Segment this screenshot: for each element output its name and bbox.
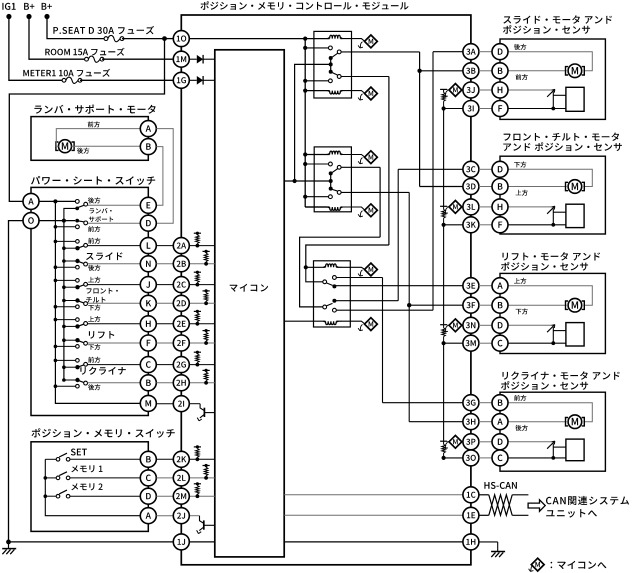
terminal module 2I [173, 396, 189, 412]
resistor pull 2D [203, 290, 210, 292]
wire 2H to MCU [189, 382, 215, 384]
unit recline motor and position sensor [500, 392, 605, 471]
relay K3 lower pivot [323, 305, 327, 309]
label recline unit line2 [501, 381, 588, 390]
terminal switch K [140, 295, 156, 311]
wire 2E to MCU [189, 323, 215, 325]
wire D to lumbar A [156, 129, 173, 224]
terminal memory B [140, 451, 156, 467]
resistor sensor pull 1 [440, 88, 447, 90]
label SET [71, 449, 87, 456]
fuse P.SEAT D 30A [104, 37, 108, 41]
wire 2A to MCU [189, 245, 215, 247]
wire sensor chain link [443, 109, 445, 207]
wire 3G to recline unit [479, 402, 492, 404]
wire 3N to lift unit [479, 324, 492, 326]
terminal module 2K [173, 451, 189, 467]
switch slide forward (L) [55, 240, 75, 242]
legend diamond M [530, 565, 533, 571]
label slide unit line1 [503, 15, 612, 23]
wire switch row to 2B [156, 263, 173, 265]
switch E pivot+arm [84, 202, 88, 206]
terminal module 3A [463, 44, 479, 60]
wire 3E to lift unit [479, 285, 492, 287]
diamond MCU sensor 1 [445, 91, 448, 97]
wire switch row to 2D [156, 302, 173, 304]
node B+ (1) [26, 14, 31, 19]
label 後方 B row [88, 384, 100, 390]
wire relay common link [295, 64, 331, 181]
label 下方 K row [88, 305, 100, 311]
wire K3 coil2 feed [284, 320, 325, 322]
twisted pair HS-CAN [489, 495, 512, 516]
wire net relay2-upper to K3 feed [379, 167, 381, 237]
unit lift motor and position sensor [500, 273, 605, 353]
wire net K3 to 3A [432, 52, 434, 311]
resistor pull 2B [203, 250, 210, 252]
switch lift down (F) [64, 339, 78, 341]
terminal module 2C [173, 277, 189, 293]
arrow to CAN units [528, 500, 545, 512]
box position memory switch [31, 442, 148, 532]
terminal module 3P [463, 434, 479, 450]
node P.SEAT junction [162, 36, 167, 41]
node ground junction [6, 540, 11, 545]
wire K3 coil1 feed [306, 245, 389, 267]
switch D pivot+arm [84, 221, 88, 225]
terminal switch A [23, 193, 39, 209]
switch lumbar rear contact [75, 200, 79, 204]
wire 1G diode to MCU [189, 79, 197, 81]
label tilt unit line1 [504, 133, 619, 141]
label lumbar support motor [34, 105, 155, 114]
resistor pull 2F [203, 330, 210, 332]
wire lumbar A [56, 129, 140, 147]
resistor pull 2C [194, 271, 201, 273]
label HS-CAN [484, 482, 517, 489]
terminal lumbar B [140, 139, 156, 155]
wire 1E stub [479, 514, 489, 516]
wire net relay2-lower to 3F/3H [408, 192, 410, 421]
terminal module 3D [463, 179, 479, 195]
label recline unit line1 [503, 371, 620, 379]
wire 3L to tilt unit [479, 206, 492, 208]
terminal switch C [140, 357, 156, 373]
wire 3H to recline unit [479, 421, 492, 423]
wire 3K to tilt unit [479, 224, 492, 226]
ground chassis left [8, 542, 10, 549]
node O bus tap [62, 219, 66, 223]
terminal module 2J [173, 508, 189, 524]
terminal lumbar A [140, 121, 156, 137]
terminal module 2H [173, 375, 189, 391]
terminal switch D [140, 215, 156, 231]
resistor pull 2H [203, 369, 210, 371]
terminal module 3C [463, 161, 479, 177]
unit front tilt motor and position sensor [500, 156, 605, 234]
wire 2D to MCU [189, 302, 215, 304]
diamond MCU sensor 4 [445, 442, 448, 448]
label 上方 J row [88, 277, 100, 283]
wire 1H to ground [479, 541, 498, 543]
label 後方 N row [88, 265, 100, 271]
switch memory 1 [45, 477, 56, 479]
switch recline rearward (B) [64, 379, 78, 381]
label 前方 D row [88, 226, 100, 232]
terminal module 2A [173, 238, 189, 254]
wire 3A to slide unit [479, 51, 492, 53]
terminal switch N [140, 256, 156, 272]
label 後方 E row [88, 197, 100, 203]
terminal switch H [140, 316, 156, 332]
relay K3 upper pivot [323, 280, 327, 284]
label CAN related system units line1 [546, 496, 629, 505]
wire MCU to 1C [284, 494, 463, 496]
node memory tap 1 [44, 476, 48, 480]
wire memory bus [45, 459, 140, 515]
wire 2G to MCU [189, 364, 215, 366]
ground chassis right [491, 551, 505, 553]
diode 1M [197, 55, 203, 64]
wire 2C to MCU [189, 284, 215, 286]
wire chain to terminal [444, 457, 463, 459]
switch lift up (H) [55, 319, 75, 321]
wire 3J to slide unit [479, 89, 492, 91]
switch memory 2 [45, 495, 56, 497]
wire 3D to tilt unit [479, 186, 492, 188]
terminal switch J [140, 277, 156, 293]
terminal module 2L [173, 470, 189, 486]
terminal module 1E [463, 507, 479, 523]
label サポート [89, 216, 113, 222]
wire chain to terminal [444, 108, 463, 110]
box power seat switch [31, 187, 148, 415]
label メモリ 1 [71, 465, 102, 472]
terminal module 2B [173, 256, 189, 272]
wire net relay1-lower to K3 feed [388, 77, 390, 246]
relay K3 coil1 [323, 264, 338, 267]
terminal switch O [23, 213, 39, 229]
motor M lumbar [59, 140, 72, 153]
terminal module 3O [463, 450, 479, 466]
resistor sensor pull 3 [440, 324, 447, 326]
wire D output [88, 222, 141, 224]
node relay bus tap [303, 46, 307, 50]
terminal module 1C [463, 487, 479, 503]
switch D upper contact [75, 219, 79, 223]
wire 3I to slide unit [479, 108, 492, 110]
wire MCU to 1E [284, 514, 463, 516]
wire net relay1-upper to 3B/3D [419, 52, 421, 187]
switch E lower contact [75, 207, 79, 211]
wire sensor chain link [443, 225, 445, 325]
resistor pull 2M [194, 483, 201, 485]
node relay bus tap [303, 195, 307, 199]
label slide unit line2 [503, 25, 590, 34]
label メモリ 2 [71, 483, 102, 490]
node sensor chain 4 [442, 456, 446, 460]
node relay bus tap [303, 37, 307, 41]
terminal module 3N [463, 317, 479, 333]
resistor sensor pull 2 [440, 205, 447, 207]
switch SET [45, 458, 56, 460]
relay K3 upper NO contact [333, 276, 337, 280]
wire 2F to MCU [189, 342, 215, 344]
resistor pull 2K [194, 446, 201, 448]
relay K1 (slide) [314, 31, 352, 98]
wire chain to terminal [444, 224, 463, 226]
wire 2K to MCU [189, 458, 215, 460]
terminal module 3H [463, 414, 479, 430]
wire A to 2J [156, 515, 173, 517]
wire net K3 to 3G [382, 278, 384, 403]
switch D lower contact [76, 225, 80, 229]
wire 3C to tilt unit [479, 168, 492, 170]
wire MCU to 1H [284, 541, 463, 543]
node sensor chain 1 [442, 106, 446, 110]
node A bus tap [53, 199, 57, 203]
terminal switch B [140, 375, 156, 391]
resistor pull 2L [203, 465, 210, 467]
node relay bus tap [303, 79, 307, 83]
wire chain to terminal [444, 342, 463, 344]
switch recline forward (C) [55, 359, 75, 361]
terminal module 2D [173, 295, 189, 311]
wire E to lumbar B [156, 147, 163, 206]
terminal module 2G [173, 357, 189, 373]
unit slide motor and position sensor [500, 39, 605, 119]
label 下方 F row [88, 344, 100, 350]
label ランバ・ [89, 208, 111, 214]
terminal module 3M [463, 335, 479, 351]
wire fuse to node [122, 38, 165, 40]
label 前方 lumbar [88, 121, 100, 127]
terminal module 3K [463, 217, 479, 233]
box microcomputer [215, 50, 284, 557]
relay K3 lower NC contact [332, 299, 336, 303]
terminal module 1M [173, 51, 189, 67]
wire junction down to switch A feed [9, 39, 164, 202]
wire 3B to slide unit [479, 70, 492, 72]
wire memory row to 2L [156, 477, 173, 479]
label リクライナ [80, 367, 125, 375]
label legend マイコンへ [551, 561, 607, 569]
wire 1O to relay bus [189, 38, 305, 40]
wire memory row to 2M [156, 495, 173, 497]
terminal module 2M [173, 488, 189, 504]
terminal module 3J [463, 82, 479, 98]
wire switch row to 2F [156, 342, 173, 344]
fuse METER1 10A [62, 78, 66, 82]
wire 2B to MCU [189, 263, 215, 265]
wire switch row to 2A [156, 245, 173, 247]
wire memory row to 2K [156, 458, 173, 460]
wire 2L to MCU [189, 477, 215, 479]
wire 3F to lift unit [479, 304, 492, 306]
terminal switch L [140, 238, 156, 254]
label 上方 H row [88, 316, 100, 322]
wire B+2 to P.SEAT fuse [47, 17, 106, 39]
wire 1M diode to MCU [189, 58, 197, 60]
wire ground to 1J [9, 541, 174, 543]
box lumbar support motor [31, 117, 148, 161]
relay K3 upper NC contact [332, 284, 336, 288]
terminal memory D [140, 488, 156, 504]
relay K3 coil2 [323, 321, 338, 324]
relay K2 (tilt) [314, 147, 351, 212]
switch tilt up (J) [55, 279, 75, 281]
switch tilt down (K) [64, 300, 78, 302]
wire 3O to recline unit [479, 457, 492, 459]
terminal module 2F [173, 335, 189, 351]
wire O line [39, 220, 75, 222]
wire net K3 to 3C [397, 169, 399, 300]
transistor 2J [189, 515, 199, 517]
wire junction to 1O [165, 38, 174, 40]
terminal module 3E [463, 278, 479, 294]
wire fuse to 1M [102, 58, 173, 60]
node IG1 [6, 14, 11, 19]
terminal switch M [140, 395, 156, 411]
transistor 2I [189, 403, 200, 405]
terminal module 1H [463, 534, 479, 550]
terminal module 3I [463, 101, 479, 117]
fuse ROOM 15A [85, 57, 89, 61]
wire A bus to M [55, 386, 140, 403]
diamond MCU sensor 2 [445, 208, 448, 214]
terminal module 1J [173, 534, 189, 550]
node net junction 3F [407, 303, 411, 307]
resistor pull 2G [194, 351, 201, 353]
terminal module 3G [463, 395, 479, 411]
node sensor chain 2 [442, 223, 446, 227]
label lift unit line2 [501, 262, 588, 271]
wire switch row to 2E [156, 323, 173, 325]
wire switch row to 2G [156, 364, 173, 366]
terminal memory C [140, 470, 156, 486]
terminal module 1G [173, 72, 189, 88]
wire M to 2I [156, 403, 173, 405]
wire switch row to 2C [156, 284, 173, 286]
label position memory control module [201, 1, 409, 10]
label 後方 lumbar [77, 148, 89, 154]
node net junction 3B [417, 69, 421, 73]
node relay common junction [293, 179, 297, 183]
wire IG1 to METER1 fuse [9, 17, 64, 81]
label tilt unit line2 [503, 142, 622, 151]
relay K3 box [314, 261, 351, 327]
label 前方 C row [88, 357, 100, 363]
label リフト [89, 331, 114, 339]
node memory tap 2 [44, 494, 48, 498]
wire 3P to recline unit [479, 441, 492, 443]
wire switch row to 2H [156, 382, 173, 384]
terminal memory A [140, 508, 156, 524]
label マイコン [230, 284, 268, 292]
wire lumbar B [71, 145, 140, 147]
wire E output [88, 204, 141, 206]
wire O to ground run [9, 221, 24, 542]
wire K3 lower pivot feed [300, 237, 381, 307]
relay K3 lower NO contact [333, 308, 337, 312]
wire O bus [63, 221, 65, 380]
wire K3 upper pivot feed [306, 267, 323, 282]
wire CAN out bottom [512, 514, 528, 516]
diode 1G [197, 76, 203, 85]
wire 1J row [189, 541, 215, 543]
node relay bus tap [303, 89, 307, 93]
node relay bus tap [303, 162, 307, 166]
diamond MCU sensor 3 [445, 326, 448, 332]
terminal switch E [140, 197, 156, 213]
label lift unit line1 [503, 252, 601, 260]
label power seat switch [31, 176, 155, 185]
wire 3M to lift unit [479, 342, 492, 344]
wire relay bus [304, 39, 306, 207]
label フロント・ [87, 288, 118, 294]
wire B+1 to ROOM fuse [29, 17, 87, 60]
wire CAN out top [512, 494, 528, 496]
resistor pull 2E [194, 310, 201, 312]
terminal module 1O [173, 31, 189, 47]
resistor sensor pull 4 [440, 440, 447, 442]
wire A bus [54, 201, 56, 386]
wire sensor chain link [443, 343, 445, 441]
label position memory switch [32, 428, 175, 437]
terminal module 3B [463, 63, 479, 79]
switch slide rearward (N) [64, 260, 78, 262]
node sensor chain 3 [442, 341, 446, 345]
wire fuse to 1G [80, 79, 173, 81]
label CAN related system units line2 [546, 509, 597, 517]
terminal switch F [140, 335, 156, 351]
node B+ (2) [44, 14, 49, 19]
label スライド [86, 252, 123, 260]
terminal module 3F [463, 297, 479, 313]
terminal module 3L [463, 199, 479, 215]
label 前方 L row [88, 238, 100, 244]
wire A line [39, 200, 75, 202]
wire 2M to MCU [189, 495, 215, 497]
box position memory control module [181, 15, 471, 565]
terminal module 2E [173, 316, 189, 332]
label チルト [86, 297, 105, 303]
wire 1C stub [479, 494, 489, 496]
node K3 feed tap [304, 265, 308, 269]
resistor pull 2A [194, 232, 201, 234]
node relay bus tap [303, 152, 307, 156]
